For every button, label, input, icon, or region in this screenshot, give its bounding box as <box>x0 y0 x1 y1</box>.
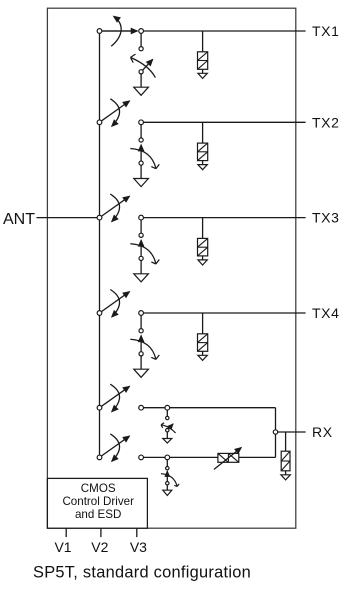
switch SW3s shunt (TX3, closed) with ground <box>130 220 159 282</box>
node RX junction <box>273 430 277 434</box>
switch SW1s shunt (TX1, open) with ground <box>131 33 156 95</box>
node RX branch 1 open terminal <box>139 405 144 410</box>
node TX3 junction <box>139 215 306 220</box>
wire RX branch 2 <box>144 434 276 457</box>
svg-text:V3: V3 <box>130 539 147 555</box>
node TX1 junction <box>139 29 306 34</box>
port label RX <box>312 424 333 440</box>
resistor termination R1 (TX1) with ground <box>198 31 208 78</box>
pin label V2 <box>91 539 108 555</box>
node TX2 junction <box>139 120 306 125</box>
switch SW4s shunt (TX4, closed) with ground <box>130 315 159 377</box>
wire antenna bus <box>99 31 101 457</box>
svg-text:TX4: TX4 <box>312 305 339 321</box>
svg-text:CMOS: CMOS <box>81 482 116 495</box>
svg-text:and ESD: and ESD <box>75 508 121 521</box>
switch SW3 series (TX3, open) <box>97 194 129 221</box>
svg-text:Control Driver: Control Driver <box>62 495 134 508</box>
svg-text:TX1: TX1 <box>312 23 339 39</box>
svg-text:TX2: TX2 <box>312 114 339 130</box>
resistor termination R3 (TX3) with ground <box>198 218 208 265</box>
port label ANT <box>3 211 35 228</box>
svg-text:ANT: ANT <box>3 211 35 228</box>
switch SW2s shunt (TX2, closed) with ground <box>130 125 159 187</box>
enclosure border <box>47 8 295 528</box>
switch SW4 series (TX4, open) <box>97 290 129 317</box>
wire RX output <box>278 431 306 433</box>
pin label V1 <box>54 539 71 555</box>
attenuator (variable resistor) RX branch 2 <box>214 448 241 470</box>
port label TX1 <box>312 23 339 39</box>
node RX branch 2 shunt tap <box>165 455 170 460</box>
port label TX4 <box>312 305 339 321</box>
pin stub V1 <box>65 528 67 537</box>
svg-text:TX3: TX3 <box>312 210 339 226</box>
resistor termination R4 (TX4) with ground <box>198 313 208 360</box>
switch SW6 series (RX branch 2, open) <box>97 434 129 461</box>
svg-text:V1: V1 <box>54 539 71 555</box>
node TX4 junction <box>139 311 306 316</box>
svg-text:V2: V2 <box>91 539 108 555</box>
switch SW6s shunt (RX branch 2, closed) with ground <box>161 460 179 496</box>
resistor termination R5 (RX) with ground <box>281 432 290 480</box>
switch SW5s shunt (RX branch 1, open) with ground <box>161 410 176 443</box>
CMOS control driver block <box>47 478 147 528</box>
pin label V3 <box>130 539 147 555</box>
port label TX2 <box>312 114 339 130</box>
switch SW5 series (RX branch 1, open) <box>97 384 129 411</box>
switch SW2 series (TX2, open) <box>97 99 129 126</box>
port label TX3 <box>312 210 339 226</box>
node RX branch 2 open terminal <box>139 455 144 460</box>
wire ANT to bus <box>37 217 100 219</box>
pin stub V3 <box>136 528 138 537</box>
wire RX branch 1 <box>144 408 276 430</box>
resistor termination R2 (TX2) with ground <box>198 122 208 169</box>
node RX branch 1 shunt tap <box>165 405 170 410</box>
switch SW1 series (TX1, closed) <box>97 16 137 46</box>
caption <box>33 564 251 582</box>
pin stub V2 <box>100 528 102 537</box>
svg-text:RX: RX <box>312 424 333 440</box>
svg-text:SP5T, standard configuration: SP5T, standard configuration <box>33 564 251 582</box>
